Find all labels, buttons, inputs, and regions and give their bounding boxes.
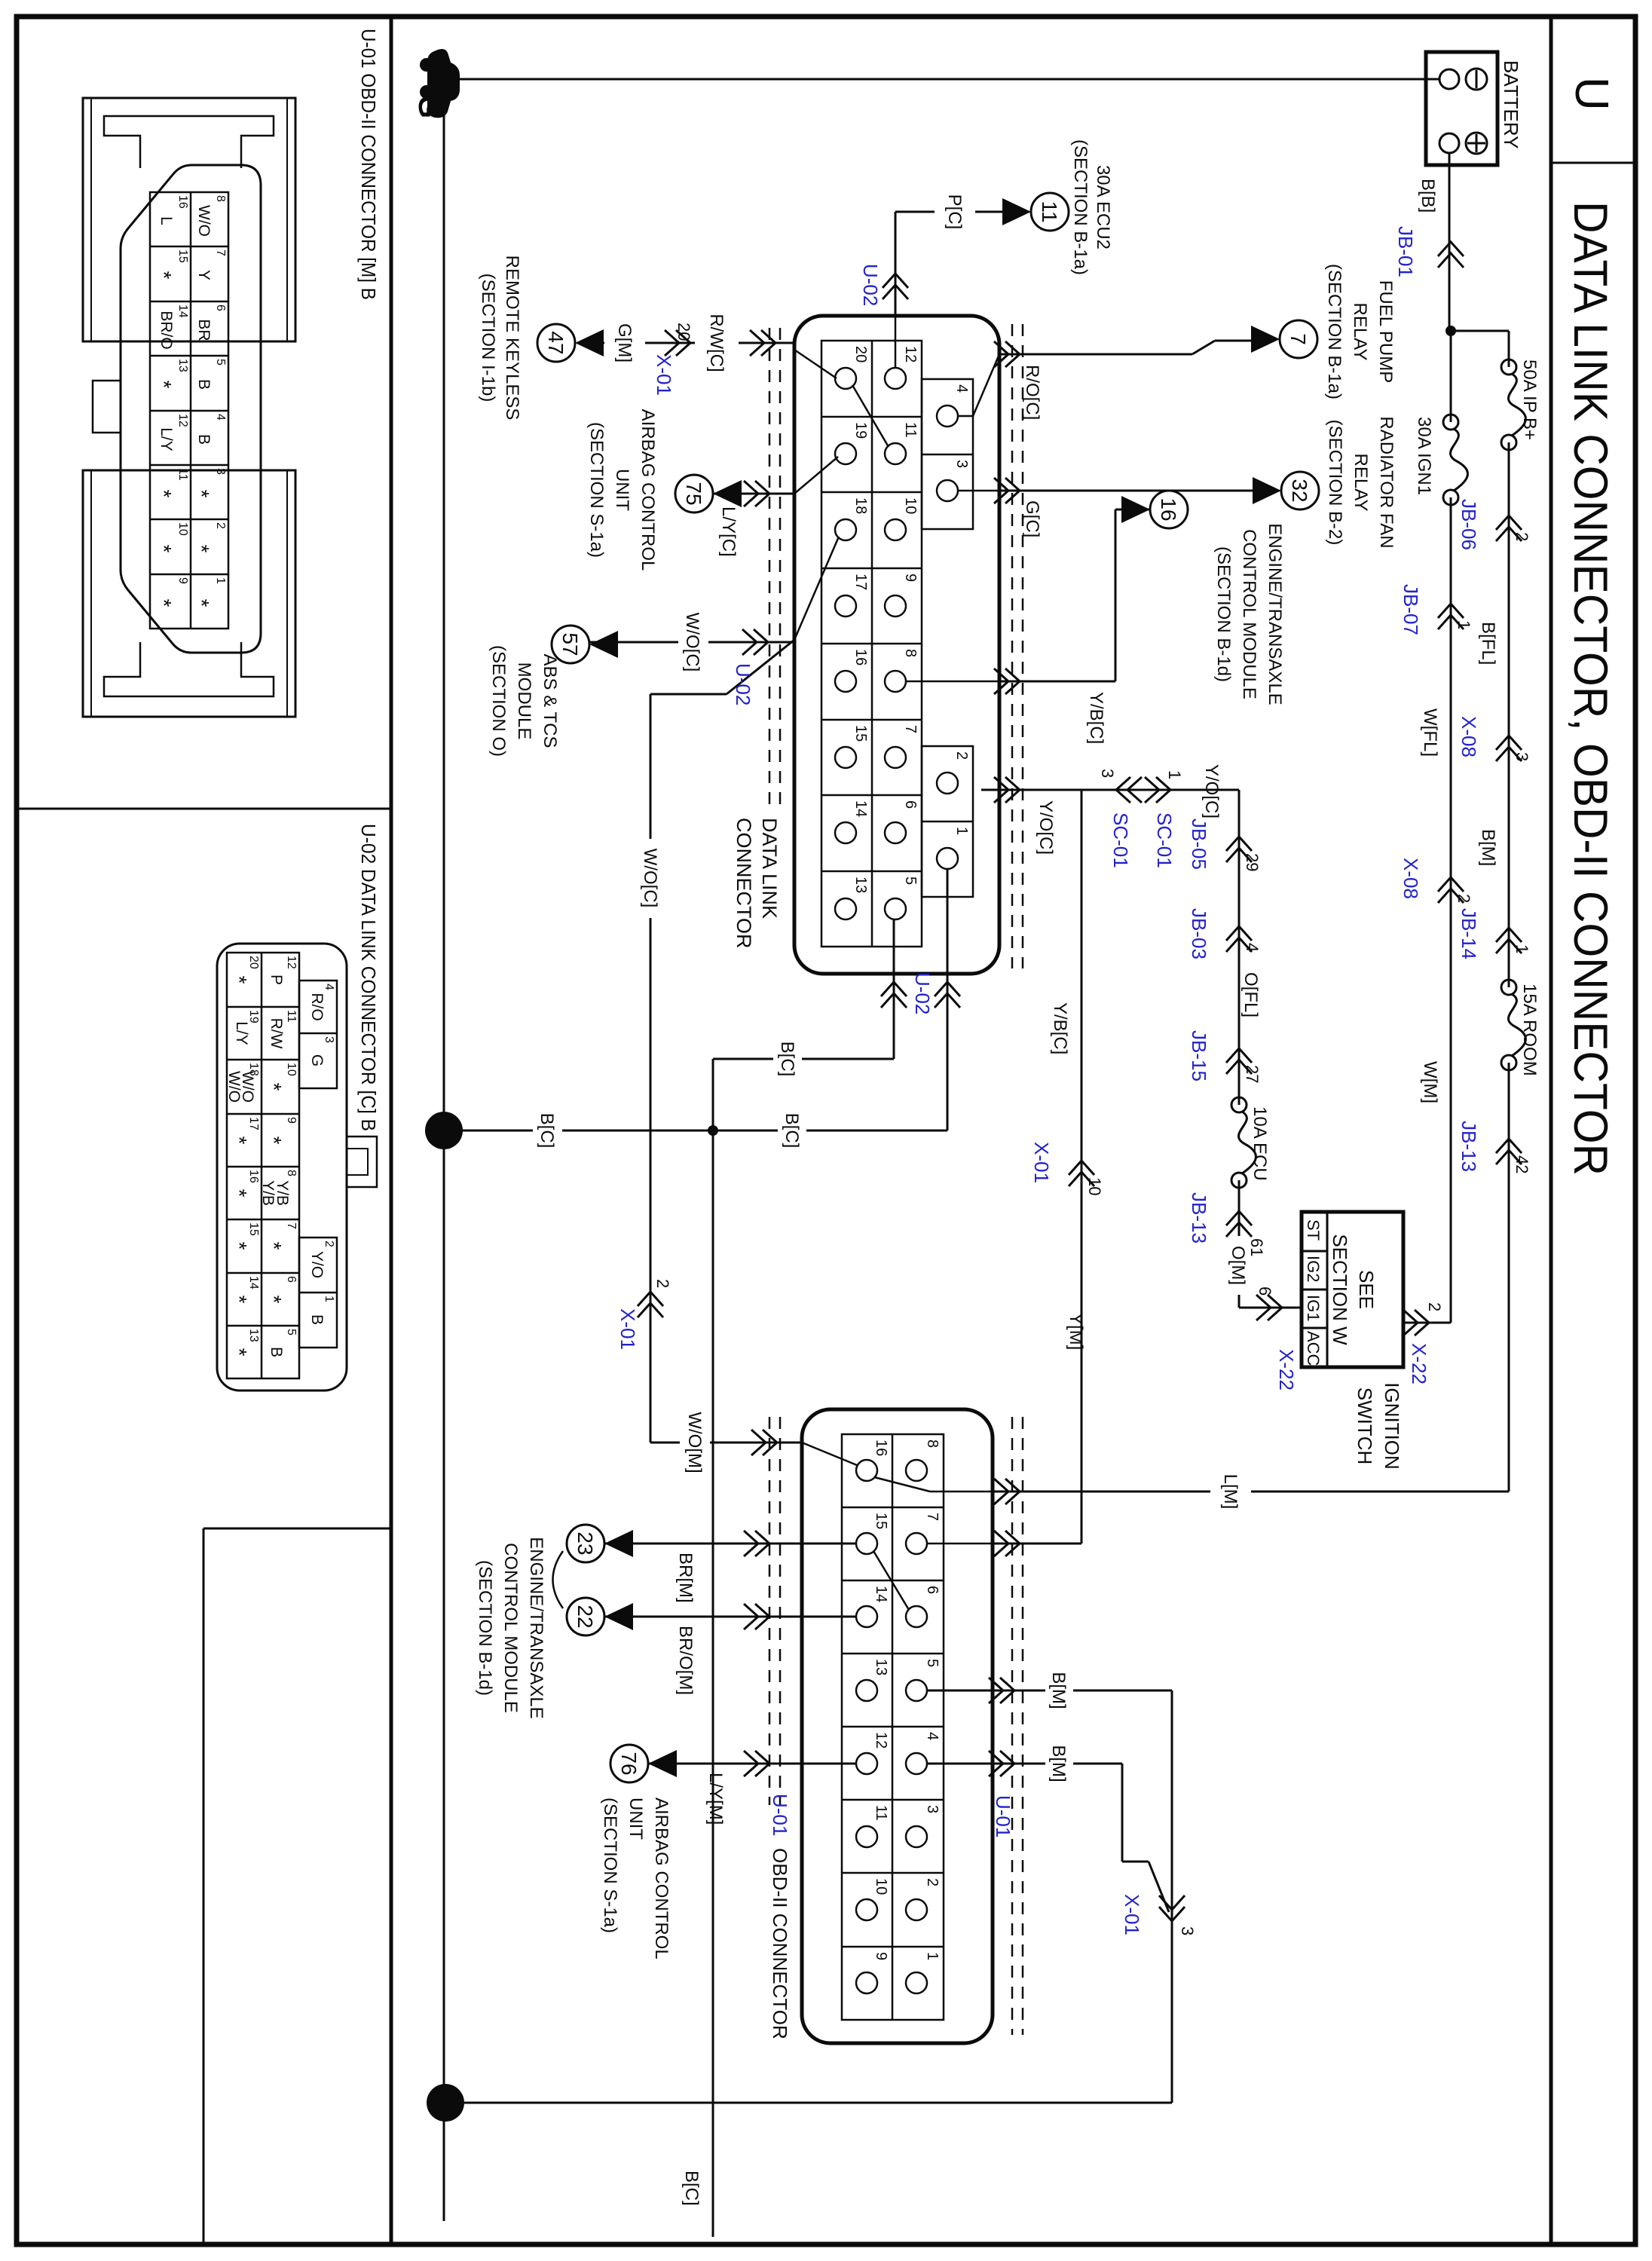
svg-text:*: * bbox=[228, 1242, 251, 1250]
svg-text:B[B]: B[B] bbox=[1418, 179, 1438, 213]
svg-text:ABS & TCS: ABS & TCS bbox=[540, 654, 560, 748]
circle 11 bbox=[1031, 193, 1069, 231]
svg-text:8: 8 bbox=[902, 649, 919, 657]
svg-text:(SECTION I-1b): (SECTION I-1b) bbox=[478, 274, 498, 402]
svg-text:U-02: U-02 bbox=[911, 972, 934, 1014]
svg-text:ENGINE/TRANSAXLE: ENGINE/TRANSAXLE bbox=[1265, 523, 1285, 705]
svg-text:1: 1 bbox=[924, 1952, 941, 1960]
connector X-08 pin2 bbox=[1438, 877, 1464, 903]
svg-text:Y/B[C]: Y/B[C] bbox=[1086, 692, 1106, 744]
svg-text:B: B bbox=[195, 379, 213, 390]
svg-text:*: * bbox=[152, 271, 176, 280]
ground bus wire bbox=[443, 100, 445, 2221]
svg-text:3: 3 bbox=[953, 460, 970, 468]
svg-text:12: 12 bbox=[285, 956, 298, 969]
connector JB-06 bbox=[1496, 516, 1522, 541]
svg-text:JB-05: JB-05 bbox=[1188, 818, 1210, 870]
svg-text:(SECTION B-2): (SECTION B-2) bbox=[1325, 420, 1345, 546]
svg-text:16: 16 bbox=[247, 1170, 260, 1183]
svg-text:6: 6 bbox=[902, 800, 919, 809]
svg-text:*: * bbox=[262, 1296, 286, 1304]
svg-text:JB-13: JB-13 bbox=[1188, 1192, 1210, 1244]
svg-text:CONTROL MODULE: CONTROL MODULE bbox=[1239, 529, 1259, 699]
svg-text:4: 4 bbox=[323, 984, 335, 990]
svg-text:2: 2 bbox=[1513, 532, 1531, 541]
svg-text:4: 4 bbox=[1243, 943, 1262, 952]
svg-text:B: B bbox=[268, 1347, 285, 1357]
connector SC-01 a bbox=[1145, 777, 1170, 803]
svg-text:11: 11 bbox=[285, 1010, 298, 1023]
wire B[C] long to right bbox=[712, 1130, 714, 2237]
connector SC-01 b bbox=[1116, 777, 1142, 803]
svg-text:G: G bbox=[412, 95, 445, 118]
svg-text:BATTERY: BATTERY bbox=[1500, 60, 1522, 149]
connector JB-13 bbox=[1496, 1139, 1522, 1164]
svg-text:3: 3 bbox=[924, 1805, 941, 1813]
svg-text:7: 7 bbox=[285, 1222, 298, 1229]
svg-text:5: 5 bbox=[924, 1659, 941, 1667]
connector U-02 chevron R/W bbox=[750, 330, 776, 356]
svg-text:17: 17 bbox=[852, 574, 869, 590]
svg-text:15: 15 bbox=[873, 1513, 889, 1529]
connector chevron R/O bbox=[994, 341, 1020, 367]
circle 47 bbox=[537, 324, 575, 362]
svg-text:5: 5 bbox=[902, 877, 919, 885]
svg-text:1: 1 bbox=[953, 827, 970, 835]
wire B[B] from battery plus bbox=[1449, 153, 1451, 331]
svg-text:P: P bbox=[268, 974, 285, 985]
battery post circles bbox=[1439, 69, 1459, 89]
wire L/Y[M] to 76 bbox=[648, 1763, 856, 1765]
svg-text:2: 2 bbox=[214, 522, 227, 529]
circle 22 bbox=[567, 1598, 604, 1635]
svg-text:ACC: ACC bbox=[1304, 1331, 1323, 1366]
svg-text:13: 13 bbox=[873, 1659, 889, 1675]
svg-text:10: 10 bbox=[902, 497, 919, 514]
svg-text:20: 20 bbox=[852, 346, 869, 363]
svg-text:2: 2 bbox=[1455, 894, 1473, 903]
U-01 pinout bracket left bbox=[83, 98, 295, 341]
svg-text:W/O: W/O bbox=[195, 205, 213, 237]
wire R/W to 47 bbox=[739, 342, 794, 344]
wire L/Y to 75 bbox=[713, 493, 794, 495]
svg-text:JB-13: JB-13 bbox=[1458, 1121, 1480, 1172]
svg-text:X-01: X-01 bbox=[1030, 1142, 1053, 1183]
svg-text:*: * bbox=[190, 599, 213, 607]
svg-text:X-08: X-08 bbox=[1458, 716, 1480, 757]
svg-text:5: 5 bbox=[285, 1329, 298, 1335]
svg-text:BR[M]: BR[M] bbox=[675, 1553, 696, 1603]
svg-text:B: B bbox=[308, 1314, 326, 1325]
svg-text:75: 75 bbox=[682, 482, 705, 505]
svg-text:50A IP B+: 50A IP B+ bbox=[1519, 359, 1540, 440]
connector U-02 chevron pin5 wire bbox=[881, 982, 907, 1008]
svg-text:UNIT: UNIT bbox=[626, 1797, 646, 1840]
svg-text:7: 7 bbox=[1286, 333, 1310, 345]
svg-text:X-01: X-01 bbox=[653, 354, 675, 396]
svg-text:U-01: U-01 bbox=[769, 1794, 791, 1836]
svg-text:Y/B[C]: Y/B[C] bbox=[1050, 1002, 1070, 1054]
DATA LINK CONNECTOR box bbox=[794, 316, 999, 974]
arrow to 32 bbox=[1253, 477, 1281, 504]
svg-text:*: * bbox=[190, 490, 213, 498]
ground node 14 bbox=[427, 2084, 464, 2122]
svg-text:BR: BR bbox=[195, 319, 213, 341]
svg-text:*: * bbox=[152, 545, 176, 553]
svg-text:Y/O[C]: Y/O[C] bbox=[1036, 800, 1056, 855]
connector U-02 chevron on Y/O wire bbox=[994, 777, 1020, 803]
svg-text:29: 29 bbox=[1243, 853, 1262, 871]
wire B[C] drop to 14 bbox=[464, 2102, 1172, 2104]
svg-text:15: 15 bbox=[176, 249, 189, 263]
svg-text:7: 7 bbox=[214, 249, 227, 256]
U-02 tab bbox=[347, 1137, 377, 1187]
svg-text:RELAY: RELAY bbox=[1351, 454, 1371, 512]
svg-text:CONNECTOR: CONNECTOR bbox=[733, 818, 755, 949]
svg-text:SC-01: SC-01 bbox=[1153, 812, 1176, 868]
svg-text:*: * bbox=[262, 1242, 286, 1250]
svg-text:27: 27 bbox=[1243, 1065, 1262, 1083]
svg-text:6: 6 bbox=[214, 304, 227, 311]
svg-text:11: 11 bbox=[176, 468, 189, 481]
svg-text:23: 23 bbox=[574, 1531, 597, 1555]
dashed harness DLC bottom bbox=[779, 328, 782, 806]
svg-text:8: 8 bbox=[214, 195, 227, 202]
svg-text:FUEL PUMP: FUEL PUMP bbox=[1375, 280, 1396, 383]
svg-text:13: 13 bbox=[247, 1329, 260, 1342]
svg-text:14: 14 bbox=[247, 1276, 260, 1290]
arrow to 16 bbox=[1121, 496, 1150, 523]
svg-text:Y/B: Y/B bbox=[259, 1180, 277, 1206]
svg-text:2: 2 bbox=[953, 751, 970, 760]
svg-text:B[C]: B[C] bbox=[777, 1042, 797, 1077]
svg-text:5: 5 bbox=[214, 359, 227, 366]
battery box bbox=[1426, 52, 1498, 165]
svg-text:42: 42 bbox=[1513, 1155, 1531, 1173]
wire Y/O drop to DLC pin2 bbox=[981, 789, 1239, 791]
wire BR[M] to 23 bbox=[604, 1543, 856, 1545]
svg-text:L/Y: L/Y bbox=[158, 427, 175, 451]
ground G car icon bbox=[420, 49, 460, 118]
svg-text:16: 16 bbox=[176, 195, 189, 209]
svg-text:ENGINE/TRANSAXLE: ENGINE/TRANSAXLE bbox=[526, 1537, 546, 1718]
dashed harness DLC top bbox=[1022, 324, 1024, 968]
header separator line bbox=[1550, 17, 1553, 2244]
arrow to 11 bbox=[1002, 198, 1031, 225]
svg-text:U-02 DATA LINK CONNECTOR [C] B: U-02 DATA LINK CONNECTOR [C] B bbox=[357, 824, 380, 1131]
svg-text:15: 15 bbox=[247, 1222, 260, 1236]
circle 7 bbox=[1280, 320, 1317, 358]
svg-text:4: 4 bbox=[924, 1732, 941, 1740]
wire B[M] pin5 bbox=[927, 1690, 1045, 1692]
connector X-01 pin20 bbox=[665, 330, 690, 356]
circle 16 bbox=[1150, 491, 1188, 528]
wire Y/B from pin8 bbox=[906, 681, 999, 683]
connector X-22 pin6 bbox=[1256, 1295, 1282, 1320]
svg-text:6: 6 bbox=[1256, 1287, 1274, 1296]
svg-text:12: 12 bbox=[873, 1732, 889, 1749]
svg-text:2: 2 bbox=[653, 1279, 672, 1288]
connector U-01 chevron L[M] bbox=[994, 1479, 1020, 1504]
connector chevron Y/B bbox=[994, 669, 1020, 694]
footer empty sub-box lines bbox=[203, 1528, 391, 1530]
ground node 12 bbox=[425, 1112, 463, 1149]
svg-text:1: 1 bbox=[1455, 620, 1473, 629]
svg-text:17: 17 bbox=[247, 1117, 260, 1130]
wire B from pin1 bbox=[947, 869, 949, 1130]
svg-text:O[M]: O[M] bbox=[1228, 1246, 1248, 1285]
svg-text:G: G bbox=[308, 1054, 326, 1066]
svg-text:Y/O: Y/O bbox=[308, 1251, 326, 1278]
svg-text:*: * bbox=[152, 381, 176, 389]
svg-text:2: 2 bbox=[924, 1878, 941, 1886]
svg-text:10: 10 bbox=[873, 1878, 889, 1895]
svg-text:(SECTION S-1a): (SECTION S-1a) bbox=[600, 1797, 620, 1933]
connector U-02 chevron pin1 wire bbox=[935, 982, 960, 1008]
svg-text:SEE: SEE bbox=[1355, 1270, 1378, 1309]
svg-text:*: * bbox=[228, 1189, 251, 1198]
svg-text:1: 1 bbox=[323, 1296, 335, 1302]
svg-text:SECTION W: SECTION W bbox=[1329, 1234, 1351, 1345]
svg-text:O[FL]: O[FL] bbox=[1241, 972, 1261, 1017]
svg-text:1: 1 bbox=[1513, 944, 1531, 953]
svg-text:4: 4 bbox=[953, 384, 970, 393]
U-01 tab bbox=[93, 381, 121, 433]
connector U-01 chevron W/O bbox=[751, 1430, 777, 1455]
connector X-08 pin3 bbox=[1496, 736, 1522, 761]
svg-text:14: 14 bbox=[852, 800, 869, 817]
svg-text:G[C]: G[C] bbox=[1022, 500, 1042, 537]
svg-text:Y: Y bbox=[195, 270, 213, 280]
wire G[C] from pin3 bbox=[958, 490, 999, 492]
svg-text:W/O[C]: W/O[C] bbox=[640, 849, 660, 908]
U-01 pin numbers top bbox=[176, 195, 227, 584]
svg-text:W[M]: W[M] bbox=[1420, 1061, 1440, 1103]
svg-text:*: * bbox=[262, 1137, 286, 1145]
svg-text:X-22: X-22 bbox=[1408, 1343, 1430, 1384]
svg-text:R/O: R/O bbox=[308, 993, 326, 1020]
svg-text:JB-06: JB-06 bbox=[1458, 499, 1480, 550]
svg-text:(SECTION S-1a): (SECTION S-1a) bbox=[586, 422, 607, 558]
svg-text:(SECTION B-1a): (SECTION B-1a) bbox=[1324, 264, 1345, 399]
svg-text:MODULE: MODULE bbox=[514, 662, 534, 740]
wire O[M] from ignition switch bbox=[1239, 1307, 1302, 1309]
svg-text:1: 1 bbox=[1165, 770, 1184, 779]
U-02 pin table bbox=[227, 953, 337, 1378]
svg-text:RADIATOR FAN: RADIATOR FAN bbox=[1376, 416, 1397, 548]
svg-text:X-08: X-08 bbox=[1400, 858, 1422, 899]
DLC top row pin numbers bbox=[852, 346, 970, 893]
svg-text:*: * bbox=[152, 490, 176, 498]
svg-text:L/Y[C]: L/Y[C] bbox=[718, 506, 739, 557]
fuse 10A ECU bbox=[1231, 1097, 1256, 1188]
svg-text:15: 15 bbox=[852, 725, 869, 742]
connector X-01 pin3 bbox=[1159, 1895, 1185, 1921]
svg-text:(SECTION O): (SECTION O) bbox=[488, 645, 509, 757]
svg-text:32: 32 bbox=[1288, 479, 1311, 502]
svg-text:L/Y: L/Y bbox=[233, 1021, 250, 1045]
U-01 T bracket left bbox=[104, 116, 274, 168]
svg-text:13: 13 bbox=[176, 359, 189, 372]
svg-text:RELAY: RELAY bbox=[1350, 303, 1370, 361]
svg-text:3: 3 bbox=[214, 468, 227, 475]
junction node B[C] bbox=[708, 1125, 718, 1136]
svg-text:L/Y[M]: L/Y[M] bbox=[705, 1773, 726, 1825]
circle 76 bbox=[610, 1745, 648, 1782]
svg-text:12: 12 bbox=[176, 414, 189, 427]
svg-text:CONTROL MODULE: CONTROL MODULE bbox=[500, 1543, 521, 1713]
svg-text:W/O[C]: W/O[C] bbox=[682, 613, 702, 672]
svg-text:JB-14: JB-14 bbox=[1458, 908, 1480, 959]
svg-text:8: 8 bbox=[924, 1440, 941, 1448]
svg-text:2: 2 bbox=[1425, 1302, 1444, 1311]
circle 75 bbox=[675, 475, 713, 512]
svg-text:B[C]: B[C] bbox=[782, 1113, 802, 1149]
svg-text:B[FL]: B[FL] bbox=[1478, 622, 1498, 665]
footer band separator bbox=[390, 17, 393, 2244]
svg-text:3: 3 bbox=[323, 1036, 335, 1043]
svg-text:UNIT: UNIT bbox=[612, 469, 632, 511]
svg-text:L[M]: L[M] bbox=[1220, 1474, 1241, 1510]
svg-text:10: 10 bbox=[176, 522, 189, 536]
svg-text:*: * bbox=[152, 599, 176, 607]
arrow to 57 bbox=[589, 631, 618, 658]
connector JB-13 pin61 bbox=[1226, 1211, 1252, 1237]
svg-text:14: 14 bbox=[431, 2089, 458, 2116]
connector JB-03 pin4 bbox=[1226, 926, 1252, 952]
svg-text:W/O[M]: W/O[M] bbox=[684, 1412, 705, 1473]
svg-text:3: 3 bbox=[1178, 1926, 1197, 1935]
circle 32 bbox=[1281, 472, 1319, 509]
arrow to 47 bbox=[575, 329, 604, 356]
svg-text:AIRBAG CONTROL: AIRBAG CONTROL bbox=[638, 409, 658, 571]
wire W/O drop to 57 bbox=[708, 641, 794, 644]
junction node bbox=[1445, 326, 1456, 336]
svg-text:JB-07: JB-07 bbox=[1400, 584, 1422, 635]
svg-text:G[M]: G[M] bbox=[614, 323, 635, 363]
svg-text:AIRBAG CONTROL: AIRBAG CONTROL bbox=[651, 1797, 672, 1960]
svg-text:Y[M]: Y[M] bbox=[1066, 1313, 1086, 1350]
OBD-II pin grid bbox=[842, 1434, 944, 2020]
svg-text:JB-01: JB-01 bbox=[1394, 226, 1417, 277]
svg-text:U-01 OBD-II CONNECTOR [M] B: U-01 OBD-II CONNECTOR [M] B bbox=[357, 29, 380, 300]
svg-text:11: 11 bbox=[902, 422, 919, 438]
svg-text:*: * bbox=[228, 1137, 251, 1145]
wire battery ground drop bbox=[452, 78, 1439, 81]
fuse 50A IP B+ bbox=[1501, 359, 1525, 450]
svg-text:7: 7 bbox=[902, 725, 919, 733]
connector U-02 chevron L/Y bbox=[744, 481, 769, 506]
connector chevron G bbox=[994, 478, 1020, 503]
svg-text:R/W: R/W bbox=[268, 1018, 285, 1049]
svg-text:7: 7 bbox=[924, 1513, 941, 1521]
svg-text:19: 19 bbox=[852, 422, 869, 439]
wire drop to ignition switch bbox=[1403, 1322, 1451, 1324]
svg-text:DATA LINK CONNECTOR, OBD-II CO: DATA LINK CONNECTOR, OBD-II CONNECTOR bbox=[1564, 201, 1617, 1176]
svg-text:JB-15: JB-15 bbox=[1188, 1030, 1210, 1082]
svg-text:9: 9 bbox=[873, 1952, 889, 1960]
svg-text:*: * bbox=[228, 976, 251, 984]
svg-text:Y/O[C]: Y/O[C] bbox=[1201, 764, 1222, 818]
svg-text:2: 2 bbox=[323, 1241, 335, 1247]
svg-text:(SECTION B-1d): (SECTION B-1d) bbox=[475, 1560, 495, 1696]
U-01 T bracket right bbox=[104, 642, 274, 696]
svg-text:12: 12 bbox=[902, 346, 919, 363]
svg-text:16: 16 bbox=[852, 649, 869, 665]
svg-text:W[FL]: W[FL] bbox=[1420, 708, 1440, 757]
svg-text:6: 6 bbox=[924, 1586, 941, 1594]
connector JB-05 pin29 bbox=[1226, 837, 1252, 862]
svg-text:57: 57 bbox=[558, 632, 582, 656]
connector U-02 chevron W/O bbox=[742, 629, 768, 655]
U-01 D-shell bbox=[121, 165, 261, 653]
svg-text:10: 10 bbox=[1085, 1177, 1104, 1195]
ignition switch box bbox=[1302, 1212, 1403, 1367]
svg-text:30A ECU2: 30A ECU2 bbox=[1093, 165, 1113, 249]
svg-text:9: 9 bbox=[285, 1117, 298, 1124]
footer cell divider bbox=[17, 808, 391, 810]
svg-text:*: * bbox=[228, 1296, 251, 1304]
svg-text:1: 1 bbox=[214, 577, 227, 584]
svg-text:BR/O[M]: BR/O[M] bbox=[675, 1626, 696, 1695]
svg-text:11: 11 bbox=[873, 1805, 889, 1821]
DLC pin circles bbox=[835, 368, 958, 919]
svg-text:OBD-II CONNECTOR: OBD-II CONNECTOR bbox=[769, 1848, 791, 2039]
connector JB-15 pin27 bbox=[1226, 1048, 1252, 1074]
svg-text:(SECTION B-1d): (SECTION B-1d) bbox=[1213, 546, 1234, 682]
svg-text:9: 9 bbox=[176, 577, 189, 584]
svg-text:*: * bbox=[228, 1348, 251, 1357]
svg-text:BR/O: BR/O bbox=[158, 311, 175, 349]
connector X-01 pin2 on W/O bbox=[638, 1292, 663, 1317]
svg-text:(SECTION B-1a): (SECTION B-1a) bbox=[1070, 139, 1091, 275]
connector X-22 pin2 bbox=[1403, 1310, 1429, 1335]
U-02 pin numbers bbox=[247, 956, 335, 1342]
arrow to 7 bbox=[1251, 326, 1280, 353]
wire riser to B+ rail bbox=[1451, 330, 1509, 332]
connector U-02 on P wire bbox=[883, 274, 908, 299]
OBD-II pin circles bbox=[856, 1460, 927, 1993]
svg-text:76: 76 bbox=[617, 1752, 641, 1775]
wire B+ rail top bbox=[1508, 331, 1510, 367]
svg-text:16: 16 bbox=[873, 1440, 889, 1456]
svg-text:*: * bbox=[190, 545, 213, 553]
svg-text:R/W[C]: R/W[C] bbox=[706, 314, 727, 372]
battery minus terminal bbox=[1466, 69, 1487, 90]
svg-text:SC-01: SC-01 bbox=[1109, 812, 1132, 868]
wire BR/O[M] to 22 bbox=[604, 1616, 856, 1618]
brace 23 22 bbox=[553, 1551, 564, 1608]
connector X-01 pin10 bbox=[1069, 1161, 1094, 1186]
connector JB-14 bbox=[1496, 928, 1522, 953]
svg-text:12: 12 bbox=[430, 1117, 457, 1144]
svg-text:10A ECU: 10A ECU bbox=[1250, 1106, 1270, 1181]
svg-text:14: 14 bbox=[176, 304, 189, 318]
svg-text:X-01: X-01 bbox=[1121, 1894, 1143, 1935]
svg-text:6: 6 bbox=[285, 1276, 298, 1283]
dashed harness OBD-II bottom bbox=[779, 1417, 782, 1805]
svg-text:B[M]: B[M] bbox=[1478, 829, 1498, 866]
OBD-II CONNECTOR box bbox=[802, 1409, 993, 2043]
wire Y/B branch bbox=[1081, 790, 1083, 1544]
svg-text:L: L bbox=[158, 216, 175, 225]
circle 57 bbox=[552, 626, 589, 663]
U-01 pin labels bbox=[152, 205, 213, 607]
wire W/O from pin18 bbox=[727, 640, 794, 694]
svg-text:X-01: X-01 bbox=[616, 1308, 639, 1350]
DLC pin grid bbox=[821, 341, 973, 947]
wire P[C] from pin12 bbox=[895, 316, 897, 368]
